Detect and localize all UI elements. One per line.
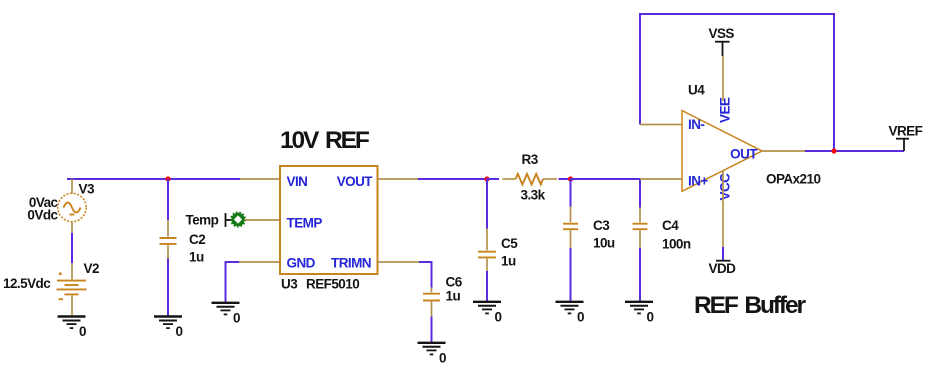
svg-text:Temp: Temp [186,212,219,227]
svg-text:REF5010: REF5010 [306,277,359,292]
svg-text:R3: R3 [522,152,539,167]
ground under C5 [473,302,502,325]
svg-text:12.5Vdc: 12.5Vdc [3,276,51,291]
svg-text:REF Buffer: REF Buffer [694,292,807,319]
ground under C4 [625,302,654,325]
svg-text:10V REF: 10V REF [280,127,370,154]
wire OUT lead [762,150,805,152]
wire main rail V3 to VIN [67,178,240,180]
svg-text:OUT: OUT [730,147,758,162]
svg-text:100n: 100n [662,237,691,252]
voltage source V3 [27,179,95,233]
power VDD [709,171,737,277]
svg-text:OPAx210: OPAx210 [766,172,820,187]
wire C2 drop [167,179,169,220]
wire C6 to ground [431,317,433,343]
capacitor C5 [478,179,518,271]
connector Temp [186,212,281,227]
wire VEE lead [722,56,724,101]
ground under GND pin [212,303,241,326]
wire OUT to VREF [805,150,904,152]
power VSS [709,26,735,101]
ground under V2 [58,317,87,340]
wire R3 to junction [559,178,571,180]
svg-text:VIN: VIN [287,174,308,189]
svg-text:VSS: VSS [709,26,735,41]
svg-text:VEE: VEE [718,97,733,123]
node junction rail/C5 [484,176,489,181]
svg-text:VOUT: VOUT [337,174,374,189]
svg-text:U4: U4 [688,83,705,98]
wire TRIMN to C6 [419,262,432,288]
svg-text:3.3k: 3.3k [521,188,546,203]
svg-text:IN-: IN- [688,117,704,132]
wire C5 to ground [486,271,488,302]
svg-text:V2: V2 [84,261,99,276]
svg-text:C6: C6 [446,275,463,290]
svg-text:C5: C5 [501,236,518,251]
svg-text:VCC: VCC [718,173,733,201]
wire VIN lead stub [240,178,280,180]
wire VOUT to R3 [418,178,487,180]
node junction rail/C3 [568,176,573,181]
svg-text:0Vdc: 0Vdc [27,208,58,223]
svg-text:TRIMN: TRIMN [331,256,371,271]
wire junction to C4 corner [571,179,641,208]
resistor R3 [503,152,558,203]
battery V2 [3,261,99,317]
ground under C2 [154,317,183,340]
wire C2 to ground [167,259,169,317]
svg-text:1u: 1u [189,250,204,265]
wire VOUT lead [378,178,419,180]
svg-text:IN+: IN+ [688,174,708,189]
wire C4 to ground [639,248,641,302]
wire IN- lead [640,124,682,126]
net VREF [889,123,923,151]
svg-text:VDD: VDD [709,261,737,276]
svg-text:VREF: VREF [889,123,923,138]
wire VCC lead [722,171,724,248]
svg-text:C4: C4 [662,218,679,233]
capacitor C2 [160,220,206,265]
wire TRIMN lead [378,261,420,263]
node junction OUT/feedback [831,148,836,153]
svg-text:C2: C2 [189,232,205,247]
svg-text:1u: 1u [446,289,461,304]
svg-text:GND: GND [287,256,316,271]
ground under C3 [556,302,585,325]
wire TEMP lead [245,219,281,221]
node junction rail/C2 [165,176,170,181]
svg-text:1u: 1u [501,254,516,269]
ground under C6 [418,343,447,366]
svg-text:C3: C3 [593,218,610,233]
wire junction to R3 [487,178,499,180]
svg-text:TEMP: TEMP [287,216,323,231]
wire V3 to V2 [71,233,73,263]
wire C3 to ground [570,248,572,302]
capacitor C3 [563,179,615,251]
capacitor C6 [423,275,463,317]
op-amp U4 [682,83,820,201]
wire feedback loop [640,14,834,151]
capacitor C4 [633,208,691,252]
svg-text:U3: U3 [281,277,298,292]
svg-text:V3: V3 [79,182,95,197]
svg-text:10u: 10u [593,236,615,251]
wire IN+ lead [640,178,682,180]
IC U3 REF5010 [280,166,378,292]
wire GND pin to ground [226,262,281,303]
